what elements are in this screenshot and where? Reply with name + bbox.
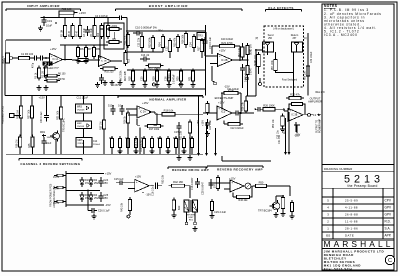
svg-text:MV1 250k: MV1 250k — [121, 70, 123, 81]
wire stage2 — [95, 59, 100, 61]
svg-text:OLA EFFECTS: OLA EFFECTS — [268, 6, 294, 10]
svg-text:25-5-89: 25-5-89 — [345, 199, 358, 203]
svg-text:IC 2A: IC 2A — [140, 111, 146, 114]
resistor R42 180 — [169, 185, 172, 187]
svg-text:+: + — [231, 180, 233, 184]
resistor R27out — [282, 114, 284, 117]
svg-text:R3 1M: R3 1M — [61, 30, 63, 37]
wire output — [303, 114, 308, 116]
svg-text:28-1-86: 28-1-86 — [345, 227, 358, 231]
capacitor C22 out — [232, 112, 236, 114]
svg-text:26-8-88: 26-8-88 — [345, 213, 358, 217]
svg-text:MR 56: MR 56 — [58, 79, 65, 81]
wire op-amp output — [62, 59, 73, 61]
svg-text:R2 1M: R2 1M — [41, 71, 44, 78]
ground sw row — [119, 149, 121, 152]
svg-text:+15V: +15V — [218, 100, 225, 104]
transistor TR7 — [272, 202, 280, 210]
ground C19 — [40, 26, 42, 29]
ground input stage — [77, 58, 79, 61]
resistor right col — [307, 64, 309, 67]
svg-text:+15V: +15V — [50, 47, 57, 51]
svg-text:LDR1: LDR1 — [111, 24, 118, 28]
op-amp IC5 recovery — [230, 180, 244, 192]
svg-text:C26 0.1uF: C26 0.1uF — [98, 210, 110, 213]
svg-text:CPV: CPV — [385, 199, 392, 203]
resistor R38 1M — [19, 135, 21, 138]
svg-text:( All on back panel ): ( All on back panel ) — [273, 28, 294, 31]
capacitor C19 10uF — [43, 16, 45, 20]
ground row small — [104, 80, 106, 83]
svg-text:C22 0.022uF: C22 0.022uF — [230, 128, 244, 130]
svg-text:R26 100K: R26 100K — [263, 103, 275, 107]
svg-text:C19 0.1uF: C19 0.1uF — [208, 36, 212, 49]
svg-text:R21: R21 — [189, 76, 192, 81]
svg-text:0.1u: 0.1u — [118, 104, 124, 108]
svg-text:C23 10uF: C23 10uF — [210, 119, 212, 130]
reverb core lines — [189, 200, 191, 212]
section label INPUT AMPLIFIER — [6, 8, 81, 10]
svg-text:IC 2B: IC 2B — [221, 58, 228, 62]
resistor R50 — [253, 185, 256, 187]
svg-text:+: + — [138, 106, 140, 110]
ground R44v — [173, 213, 175, 216]
svg-text:-15V: -15V — [294, 133, 300, 137]
svg-text:SEND L/N: SEND L/N — [255, 55, 257, 66]
svg-text:R20: R20 — [177, 76, 180, 81]
wire effects node — [244, 112, 254, 114]
resistor R26 100K — [260, 108, 263, 110]
svg-text:R10: R10 — [129, 58, 131, 63]
svg-text:DRAWING NUMBER: DRAWING NUMBER — [324, 167, 352, 171]
svg-text:+15V: +15V — [39, 96, 46, 100]
jack left loop — [246, 77, 249, 80]
svg-text:R17: R17 — [198, 46, 201, 51]
title block line3 — [322, 187, 394, 189]
wire tone return rail — [120, 88, 206, 90]
resistor R27v — [180, 69, 182, 72]
svg-text:R53 10k: R53 10k — [162, 174, 165, 184]
op-amp IC2b send — [218, 54, 233, 67]
svg-text:C16 1/2uF: C16 1/2uF — [151, 184, 154, 196]
svg-text:C32 100uF: C32 100uF — [311, 51, 313, 63]
svg-text:C15 1uF: C15 1uF — [114, 178, 124, 181]
capacitor C16 out — [149, 185, 154, 187]
svg-text:IC 1A: IC 1A — [53, 58, 59, 61]
svg-text:4V7A: 4V7A — [53, 202, 59, 205]
svg-text:-15V: -15V — [105, 203, 111, 207]
svg-text:Send: Send — [268, 34, 274, 37]
ground psu — [93, 214, 95, 217]
svg-text:1N4148: 1N4148 — [47, 137, 55, 139]
resistor R18h 10k — [159, 113, 162, 115]
svg-text:C14: C14 — [93, 141, 98, 143]
svg-text:Foot Switched: Foot Switched — [282, 79, 298, 82]
op-amp IC4 drive — [135, 179, 150, 192]
svg-text:C1 RF 100: C1 RF 100 — [21, 53, 34, 56]
svg-text:REL L/N: REL L/N — [316, 91, 325, 94]
wire rdrive in — [126, 182, 135, 184]
zener ZD2 — [81, 192, 83, 195]
wire boost rail — [126, 20, 128, 60]
svg-text:C15: C15 — [141, 76, 144, 81]
svg-text:C12 1/2uF: C12 1/2uF — [77, 97, 89, 100]
wire left loop — [242, 43, 244, 47]
svg-text:+: + — [289, 109, 291, 113]
svg-text:11-6-88: 11-6-88 — [345, 220, 358, 224]
footswitch FS1 pad — [10, 114, 15, 118]
resistor loop R57 — [275, 57, 277, 60]
wire sw bus — [6, 153, 203, 155]
section label REVERB RECOVERY AMP — [207, 165, 263, 167]
svg-text:+15V: +15V — [79, 11, 86, 15]
wire to output op-amp — [275, 108, 284, 110]
wire +15V top rail — [41, 17, 120, 19]
wire fb effects — [224, 123, 228, 125]
jack socket send — [263, 42, 274, 52]
jack reverb b — [194, 222, 197, 225]
svg-text:+15V: +15V — [113, 84, 119, 87]
wire R25 to rail — [58, 14, 60, 17]
capacitor left loop C20a — [242, 45, 244, 48]
jack pad tone a — [153, 83, 156, 86]
jack reverb a — [185, 222, 188, 225]
svg-text:|P|: |P| — [255, 38, 258, 40]
svg-text:C4 0.047uF: C4 0.047uF — [95, 15, 109, 18]
wire drop arrow a — [198, 96, 200, 154]
svg-text:EFFECTS AMP: EFFECTS AMP — [215, 96, 234, 100]
resistor send LN upper — [247, 43, 249, 46]
svg-text:AMPLIFIER: AMPLIFIER — [308, 100, 322, 104]
svg-text:R10: R10 — [98, 32, 100, 37]
wire R52 column — [288, 112, 290, 152]
svg-text:C16: C16 — [165, 76, 168, 81]
resistor R1 — [16, 57, 19, 59]
svg-text:8R2: 8R2 — [178, 205, 181, 210]
resistor R25 100 — [59, 11, 74, 14]
resistor R54 — [291, 200, 293, 203]
wire feedback rail — [60, 44, 108, 46]
resistor send LN lower — [247, 63, 249, 66]
resistor R15 — [162, 34, 164, 37]
svg-text:+15V: +15V — [197, 120, 200, 126]
svg-text:1N4148: 1N4148 — [77, 126, 85, 128]
resistor R24v 1M — [207, 101, 209, 104]
svg-text:C11 22k: C11 22k — [138, 37, 141, 47]
capacitor C12n 510p — [112, 105, 114, 109]
resistor R31 10k — [60, 105, 62, 108]
section label NORMAL AMPLIFIER — [118, 95, 203, 97]
svg-text:IC 1B: IC 1B — [101, 61, 107, 63]
svg-text:2200uF: 2200uF — [93, 144, 101, 146]
svg-text:Footswitch (FS1): Footswitch (FS1) — [2, 106, 5, 124]
svg-text:C13 .02: C13 .02 — [141, 54, 150, 57]
resistor R21 — [146, 65, 149, 67]
svg-text:R37 10k: R37 10k — [27, 109, 30, 119]
capacitor Cin drive — [116, 182, 120, 184]
svg-text:IC3: IC3 — [221, 109, 226, 113]
svg-text:R50 10k: R50 10k — [273, 119, 275, 128]
svg-text:+15V: +15V — [105, 172, 112, 176]
svg-text:DATE: DATE — [345, 234, 354, 238]
zener ZD1b — [90, 177, 92, 180]
svg-text:MR5: MR5 — [78, 140, 84, 142]
reverb coil primary — [184, 200, 189, 212]
switch box MR2 — [76, 121, 92, 129]
svg-text:-: - — [219, 63, 220, 67]
svg-text:25V: 25V — [104, 182, 109, 185]
svg-text:MR2: MR2 — [77, 123, 82, 125]
svg-text:R39: R39 — [109, 138, 114, 140]
jack pad tone b — [180, 83, 183, 86]
resistor R28v — [192, 69, 194, 72]
svg-text:C28 0.0047: C28 0.0047 — [202, 182, 205, 195]
svg-text:REVERB DRIVE AMP: REVERB DRIVE AMP — [172, 168, 209, 172]
transistor TR5 — [53, 133, 60, 140]
pot send level — [258, 52, 260, 55]
svg-text:+15V: +15V — [202, 120, 205, 126]
resistor R10 — [100, 68, 103, 70]
notes box — [322, 4, 394, 270]
svg-text:510p: 510p — [108, 104, 114, 108]
wire psu +rail — [66, 173, 104, 175]
capacitor C26 — [88, 210, 92, 212]
resistor R53 — [282, 195, 284, 198]
resistor R17v — [177, 34, 179, 37]
wire rrec out — [267, 185, 291, 187]
wire -15V output — [295, 122, 297, 132]
wire into IC2 — [126, 108, 137, 110]
switch box MR3 — [76, 104, 92, 113]
wire IC1b out — [112, 60, 123, 62]
resistor R3 1k — [38, 66, 40, 69]
svg-text:R12 47k: R12 47k — [124, 35, 127, 45]
capacitor C19e 0.1uF — [204, 37, 206, 41]
svg-text:R21 10k: R21 10k — [179, 130, 182, 140]
svg-text:C10 0.0056uF 5%: C10 0.0056uF 5% — [135, 25, 157, 29]
svg-text:R6 100: R6 100 — [58, 74, 66, 76]
resistor R29h 470K — [221, 92, 224, 94]
wire send in low — [210, 63, 218, 65]
resistor R30 1M — [20, 104, 22, 107]
svg-text:C31 10u: C31 10u — [278, 134, 281, 144]
title block line2 — [322, 171, 394, 173]
svg-text:C18 0.0047: C18 0.0047 — [191, 177, 194, 190]
svg-text:R38 1M: R38 1M — [15, 140, 18, 148]
optocoupler LDR1 — [104, 23, 124, 49]
resistor R37b 10k — [31, 104, 33, 107]
svg-text:MV2 1M5: MV2 1M5 — [125, 70, 127, 81]
resistor R18v — [185, 31, 187, 34]
wire rrec fb — [233, 196, 237, 198]
section label REVERB DRIVE AMP — [168, 166, 206, 168]
resistor R24 — [156, 69, 158, 72]
jack socket return — [292, 42, 303, 52]
capacitor C26b — [43, 137, 45, 141]
capacitor C13n 0.1u — [121, 105, 123, 109]
svg-text:R26 10k: R26 10k — [242, 101, 245, 111]
svg-text:C29 2.2uF: C29 2.2uF — [214, 210, 227, 214]
svg-text:R10 220: R10 220 — [104, 71, 114, 74]
jack send amp — [214, 82, 217, 85]
wire psu gnd drop — [87, 191, 89, 211]
wire effects left boundary — [205, 25, 207, 96]
capacitor C15n — [178, 122, 180, 126]
copyright symbol — [385, 255, 394, 264]
svg-text:TR7 BC184: TR7 BC184 — [258, 209, 272, 213]
resistor R7 — [85, 45, 87, 48]
svg-text:APP.: APP. — [385, 234, 392, 238]
svg-text:1M: 1M — [214, 185, 217, 188]
ground tone stack — [132, 82, 134, 85]
svg-text:GPV: GPV — [385, 213, 393, 217]
wire tone rail 31 — [127, 30, 206, 32]
resistor R2 1M — [45, 65, 47, 68]
svg-text:R46 22k: R46 22k — [239, 199, 249, 202]
svg-text:BOOST AMPLIFIER: BOOST AMPLIFIER — [149, 4, 189, 8]
svg-text:R5 47: R5 47 — [69, 30, 71, 37]
svg-text:R7: R7 — [88, 47, 92, 51]
resistor R19v — [193, 34, 195, 37]
switch box MR5 — [76, 138, 92, 148]
resistor R3 — [64, 23, 66, 26]
svg-text:TR5 BC184L: TR5 BC184L — [63, 118, 66, 132]
resistor R46 22k — [234, 196, 237, 198]
svg-text:R43 10k: R43 10k — [120, 202, 123, 212]
svg-text:470K: 470K — [228, 88, 234, 92]
svg-text:R17 100k: R17 100k — [149, 128, 160, 131]
svg-text:R56 10k: R56 10k — [305, 71, 307, 80]
ground rrec — [282, 211, 284, 214]
svg-text:C12: C12 — [166, 46, 169, 51]
svg-text:+15V: +15V — [219, 48, 226, 52]
svg-text:1N4148: 1N4148 — [77, 110, 85, 112]
ground R16n — [127, 123, 129, 154]
resistor R4 — [79, 23, 81, 26]
wire tone mid — [127, 51, 163, 53]
resistor R20v — [201, 38, 203, 41]
resistor feedback R29 — [289, 103, 292, 105]
op-amp IC3a effects — [217, 106, 232, 120]
section label OLA EFFECTS — [266, 9, 302, 11]
wire feedback IC2 — [137, 124, 140, 126]
wire drive to coil — [189, 186, 191, 198]
resistor R49 — [211, 199, 213, 202]
title block top line — [322, 164, 394, 166]
svg-text:R6: R6 — [80, 47, 84, 51]
capacitor C4 — [87, 26, 89, 30]
section label BOOST AMPLIFIER — [116, 8, 243, 10]
svg-text:C30 0.1uF: C30 0.1uF — [40, 111, 43, 123]
svg-text:-: - — [218, 116, 219, 120]
svg-text:R30 1M: R30 1M — [16, 110, 19, 119]
tone stack drops — [141, 48, 143, 52]
wire LDR left — [100, 28, 104, 30]
svg-text:R25 100: R25 100 — [62, 7, 72, 11]
svg-text:C: C — [388, 258, 392, 264]
svg-text:-: - — [231, 188, 232, 192]
op-amp IC1a — [50, 54, 63, 66]
svg-text:C14: C14 — [190, 42, 193, 47]
svg-text:C19: C19 — [47, 19, 52, 23]
svg-text:CR3: CR3 — [157, 138, 162, 140]
wire tone bottom — [127, 69, 205, 71]
svg-text:OUTPUT TO: OUTPUT TO — [317, 120, 319, 133]
resistor R23 — [144, 69, 146, 72]
svg-text:R18 10k: R18 10k — [164, 108, 174, 112]
svg-text:C5 10uF: C5 10uF — [91, 28, 93, 37]
wire psu left — [65, 171, 67, 207]
resistor R6 100 — [44, 75, 47, 77]
diode D2 — [48, 62, 52, 65]
resistor R14 — [152, 35, 154, 38]
svg-text:CHANNEL 2 REVERB SWITCHING: CHANNEL 2 REVERB SWITCHING — [20, 162, 80, 166]
svg-text:C31: C31 — [125, 138, 130, 140]
svg-text:+15V: +15V — [135, 175, 141, 179]
svg-text:MR3: MR3 — [77, 107, 83, 109]
svg-text:IC 3B: IC 3B — [292, 114, 298, 116]
resistor R44v — [173, 198, 175, 201]
ground R24v — [207, 131, 209, 134]
svg-text:+: + — [51, 54, 53, 58]
svg-text:MR1: MR1 — [40, 131, 46, 134]
svg-text:4-11-88: 4-11-88 — [345, 206, 358, 210]
svg-text:R15 47k: R15 47k — [174, 37, 177, 47]
wire psu -rail — [66, 204, 104, 206]
svg-text:-15V: -15V — [146, 193, 152, 197]
svg-text:-: - — [100, 63, 101, 67]
svg-text:R.D.: R.D. — [385, 220, 391, 224]
svg-text:S.A.: S.A. — [385, 227, 391, 231]
svg-text:R42 180: R42 180 — [173, 180, 183, 184]
svg-text:REVERB RECOVERY AMP: REVERB RECOVERY AMP — [217, 168, 263, 172]
wire right column — [307, 33, 309, 96]
svg-text:+: + — [100, 56, 102, 60]
capacitor C13 — [140, 58, 144, 60]
wire C31 column — [285, 118, 287, 152]
svg-text:-: - — [138, 114, 139, 118]
svg-text:470p: 470p — [33, 62, 35, 68]
svg-text:C16 470: C16 470 — [135, 138, 138, 148]
svg-text:+15V: +15V — [142, 101, 149, 105]
capacitor C24 — [100, 177, 102, 181]
svg-text:R52: R52 — [284, 129, 286, 134]
wire switch boxes — [83, 96, 85, 105]
svg-text:R16 10k: R16 10k — [182, 34, 185, 44]
resistor R26v — [168, 69, 170, 72]
svg-text:15V: 15V — [85, 197, 90, 200]
svg-text:0.0047: 0.0047 — [251, 67, 253, 75]
wire send jack — [256, 49, 263, 51]
svg-text:R19: R19 — [153, 76, 156, 81]
svg-text:+15V: +15V — [156, 29, 163, 33]
wire send bottom — [258, 69, 260, 74]
wire loop bottom — [275, 72, 277, 73]
svg-text:|C|: |C| — [304, 38, 307, 40]
op-amp IC2a — [137, 106, 152, 118]
capacitor C1 470p — [31, 57, 34, 59]
resistor R17h 100k — [145, 125, 148, 127]
svg-text:R18: R18 — [129, 76, 132, 81]
ground reverb — [194, 226, 196, 229]
wire rail to +15 — [64, 18, 66, 26]
ground R2 — [45, 85, 47, 88]
svg-text:R14: R14 — [159, 42, 162, 47]
zener ZD2b — [90, 192, 92, 195]
resistor R19n — [189, 120, 191, 123]
svg-text:10uF: 10uF — [46, 24, 53, 28]
ground right normal — [178, 132, 180, 154]
